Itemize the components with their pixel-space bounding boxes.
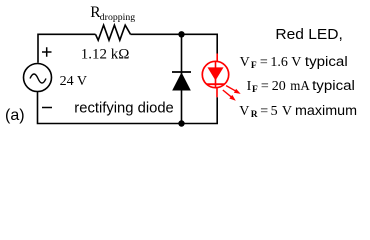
svg-text:20: 20 bbox=[272, 79, 286, 94]
wire rectifier branch bbox=[181, 34, 183, 123]
svg-text:=: = bbox=[261, 79, 269, 94]
polarity plus bbox=[42, 47, 52, 57]
svg-text:(a): (a) bbox=[5, 107, 25, 124]
wire left-bottom segment bbox=[38, 92, 219, 124]
svg-text:1.6: 1.6 bbox=[270, 55, 288, 70]
wire LED branch bottom red bbox=[216, 88, 218, 98]
svg-text:F: F bbox=[252, 85, 258, 95]
wire LED branch top black bbox=[216, 34, 218, 53]
LED D2 anode line bbox=[215, 61, 217, 87]
diode D1 rectifying: cathode bar bbox=[172, 71, 191, 73]
LED D2 triangle bbox=[208, 67, 224, 80]
svg-text:Red LED,: Red LED, bbox=[275, 26, 343, 43]
svg-text:1.12 kΩ: 1.12 kΩ bbox=[81, 47, 130, 63]
svg-text:F: F bbox=[251, 61, 257, 71]
svg-text:V: V bbox=[291, 55, 301, 70]
svg-text:V: V bbox=[240, 55, 250, 70]
wire top-right segment bbox=[131, 33, 219, 35]
svg-text:5: 5 bbox=[271, 104, 278, 119]
svg-text:R: R bbox=[251, 110, 258, 120]
diode D1 rectifying: triangle bbox=[173, 74, 190, 91]
resistor R_dropping bbox=[96, 25, 131, 40]
polarity minus bbox=[42, 107, 52, 109]
svg-text:typical: typical bbox=[305, 54, 348, 70]
LED D2 circle bbox=[202, 61, 228, 87]
wire top-left segment bbox=[38, 34, 96, 62]
LED D2 cathode bar bbox=[207, 83, 225, 85]
AC source sine symbol bbox=[30, 74, 46, 83]
svg-text:=: = bbox=[260, 55, 268, 70]
wire LED branch bottom black bbox=[216, 97, 218, 123]
LED light arrow 1 bbox=[226, 86, 241, 94]
wire LED branch top red bbox=[216, 54, 218, 63]
svg-text:dropping: dropping bbox=[100, 12, 135, 23]
LED light arrow 2 bbox=[223, 90, 236, 101]
node junction top bbox=[178, 31, 184, 37]
svg-text:V: V bbox=[239, 104, 249, 119]
node junction bottom bbox=[178, 120, 184, 126]
svg-text:mA: mA bbox=[290, 79, 310, 94]
svg-text:maximum: maximum bbox=[295, 102, 357, 118]
svg-text:24 V: 24 V bbox=[60, 74, 87, 89]
svg-text:V: V bbox=[282, 104, 292, 119]
svg-text:=: = bbox=[260, 104, 268, 119]
AC source V1 circle bbox=[24, 64, 52, 92]
svg-text:typical: typical bbox=[312, 78, 355, 94]
svg-text:I: I bbox=[247, 79, 252, 94]
svg-text:rectifying diode: rectifying diode bbox=[74, 100, 174, 116]
